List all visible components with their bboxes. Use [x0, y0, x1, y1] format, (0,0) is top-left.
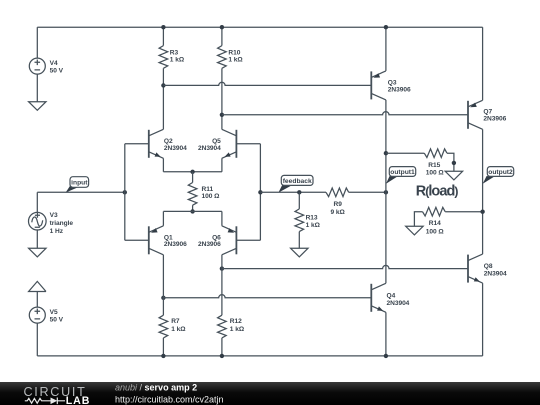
svg-text:2N3904: 2N3904: [484, 271, 507, 278]
resistor R13: [295, 209, 304, 232]
wire R11 bottom lead: [192, 205, 194, 211]
svg-text:2N3904: 2N3904: [164, 145, 187, 152]
wire Q6 collector to R12: [221, 255, 223, 315]
transistor Q7 2N3906: [468, 100, 483, 129]
wire R12 bottom lead: [221, 338, 223, 356]
svg-text:triangle: triangle: [50, 220, 74, 227]
svg-text:feedback: feedback: [283, 178, 312, 185]
transistor Q4 2N3904: [371, 283, 386, 312]
wire R13 bottom lead: [298, 232, 300, 249]
wire R11 top lead: [192, 172, 194, 183]
wire Q1 base lead: [125, 239, 149, 241]
junction R10 top rail: [220, 25, 224, 29]
wire Q8 emitter to bottom rail corner: [482, 283, 484, 356]
resistor R12: [218, 315, 227, 338]
wire top supply rail: [37, 26, 482, 28]
junction R11 top: [190, 170, 194, 174]
resistor R9: [326, 188, 349, 197]
wire Q3 base net with hop over R10: [163, 82, 371, 85]
wire Q3 emitter to top rail: [385, 27, 387, 71]
wire Q6 base lead: [236, 239, 260, 241]
node input flag: [66, 177, 89, 193]
wire R3 top lead: [162, 27, 164, 45]
svg-text:1 kΩ: 1 kΩ: [170, 57, 185, 64]
svg-text:anubi / servo amp 2: anubi / servo amp 2: [115, 382, 197, 392]
svg-text:Q8: Q8: [484, 263, 493, 270]
svg-text:100 Ω: 100 Ω: [426, 170, 445, 177]
wire output2 rail (Q7 collector to Q8 collector): [482, 129, 484, 254]
svg-text:V3: V3: [50, 212, 58, 219]
transistor Q8 2N3904: [468, 254, 483, 283]
transistor Q3 2N3906: [371, 71, 386, 100]
junction input stub: [123, 190, 127, 194]
svg-text:100 Ω: 100 Ω: [426, 228, 445, 235]
wire V4 bottom lead: [36, 74, 38, 102]
transistor Q2 2N3904: [149, 129, 164, 158]
svg-text:R(load): R(load): [416, 183, 459, 199]
svg-text:1 kΩ: 1 kΩ: [306, 222, 321, 229]
svg-text:100 Ω: 100 Ω: [202, 193, 221, 200]
junction R15 tap on output1 rail: [384, 151, 388, 155]
junction Q3 emitter top rail: [384, 25, 388, 29]
transistor Q1 2N3906: [149, 226, 164, 255]
wire Q8 base net with hop over output1 rail: [222, 265, 468, 268]
junction Q4 emitter bottom rail: [384, 354, 388, 358]
svg-text:output2: output2: [488, 169, 513, 176]
svg-text:50 V: 50 V: [50, 317, 64, 324]
ground above V5 (flipped): [29, 281, 46, 291]
wire R13 top lead: [298, 192, 300, 209]
junction R14 output2 rail: [480, 210, 484, 214]
wire Q1 emitter tail: [162, 211, 164, 225]
resistor R15: [424, 149, 447, 158]
ground below V4: [29, 102, 46, 111]
svg-text:1 Hz: 1 Hz: [50, 228, 64, 235]
wire feedback to R9: [260, 191, 326, 193]
wire V3 top lead: [36, 192, 38, 213]
svg-text:R12: R12: [230, 318, 242, 325]
wire output1 rail (Q3 collector to Q4 collector): [385, 100, 387, 283]
junction R11 bottom: [190, 209, 194, 213]
junction R15 ground joint: [452, 161, 456, 165]
ground below R15: [445, 171, 462, 180]
svg-text:R15: R15: [428, 162, 440, 169]
voltage source V4: [29, 58, 45, 74]
svg-text:R13: R13: [306, 214, 318, 221]
svg-text:R3: R3: [170, 49, 179, 56]
svg-text:50 V: 50 V: [50, 68, 64, 75]
wire bottom supply rail: [37, 355, 482, 357]
junction R10 Q7-base tap: [220, 113, 224, 117]
svg-text:R14: R14: [429, 220, 441, 227]
wire R10 bottom to Q5 collector: [221, 68, 223, 129]
wire R10 top lead: [221, 27, 223, 45]
svg-text:R7: R7: [171, 318, 180, 325]
junction Q8 base tap on R12 column: [220, 266, 224, 270]
svg-text:2N3906: 2N3906: [198, 241, 221, 248]
svg-text:input: input: [71, 180, 88, 187]
resistor R3: [159, 46, 168, 69]
junction R7 bottom rail: [161, 354, 165, 358]
svg-text:2N3904: 2N3904: [198, 145, 221, 152]
node output2 flag: [483, 167, 514, 184]
svg-text:V5: V5: [50, 309, 58, 316]
ground below R13: [291, 248, 308, 257]
wire R15 left lead: [386, 152, 424, 154]
node feedback flag: [278, 175, 313, 192]
wire Q2 base lead: [125, 143, 149, 145]
resistor R7: [159, 315, 168, 338]
junction R13 tap: [297, 190, 301, 194]
svg-text:2N3906: 2N3906: [164, 241, 187, 248]
resistor R11: [188, 183, 197, 206]
wire R7 bottom lead: [162, 338, 164, 356]
svg-text:Q4: Q4: [387, 292, 396, 299]
svg-text:http://circuitlab.com/cv2atjn: http://circuitlab.com/cv2atjn: [115, 395, 224, 405]
wire Q5 base lead: [236, 143, 260, 145]
svg-text:2N3904: 2N3904: [387, 300, 410, 307]
ground left of R14: [406, 226, 423, 235]
junction Q4 base tap on R7 column: [161, 296, 165, 300]
transistor Q5 2N3904: [222, 129, 237, 158]
junction R12 bottom rail: [220, 354, 224, 358]
wire feedback vertical: [259, 144, 261, 241]
resistor R10: [218, 46, 227, 69]
wire R3 bottom to Q2 collector: [162, 68, 164, 129]
wire Q5 emitter tail: [221, 158, 223, 172]
wire V3 bottom lead: [36, 229, 38, 248]
svg-text:1 kΩ: 1 kΩ: [230, 326, 245, 333]
wire Q1 collector to R7: [162, 255, 164, 315]
wire R15 right lead to ground: [447, 153, 454, 171]
wire emitter join bottom: [163, 210, 222, 212]
junction feedback: [258, 190, 262, 194]
junction R3 Q3-base tap: [161, 83, 165, 87]
wire V5 bottom lead: [36, 323, 38, 356]
svg-text:9 kΩ: 9 kΩ: [331, 209, 346, 216]
wire Q6 emitter tail: [221, 211, 223, 225]
svg-text:1 kΩ: 1 kΩ: [228, 57, 243, 64]
junction R3 top rail: [161, 25, 165, 29]
wire R9 to output1 rail: [349, 191, 386, 193]
voltage source V3 triangle: [29, 212, 47, 230]
voltage source V5: [29, 307, 45, 323]
svg-text:1 kΩ: 1 kΩ: [171, 326, 186, 333]
node output1 flag: [386, 167, 416, 184]
svg-text:2N3906: 2N3906: [388, 87, 411, 94]
wire V4 top lead: [36, 27, 38, 58]
wire input net from V3 to stub: [37, 191, 125, 193]
junction R9 output1: [384, 190, 388, 194]
svg-text:2N3906: 2N3906: [483, 115, 506, 122]
wire R14 left lead from ground: [414, 212, 422, 227]
wire Q2 emitter tail: [162, 158, 164, 172]
resistor R14: [423, 207, 446, 216]
wire emitter join top: [163, 171, 222, 173]
svg-text:R10: R10: [228, 49, 240, 56]
svg-text:R9: R9: [334, 201, 343, 208]
wire R14 right lead to output2 rail: [445, 211, 482, 213]
wire Q4 base net with hop over R12 column: [163, 295, 371, 298]
transistor Q6 2N3906: [222, 226, 237, 255]
svg-text:R11: R11: [202, 186, 214, 193]
wire Q4 emitter to bottom rail: [385, 312, 387, 356]
svg-text:LAB: LAB: [66, 395, 91, 405]
svg-text:V4: V4: [50, 60, 58, 67]
wire Q7 base net with hop over output1 rail: [222, 112, 468, 115]
ground below V3: [29, 248, 46, 257]
svg-text:Q7: Q7: [483, 108, 492, 115]
wire Q7 emitter to top rail corner: [482, 27, 484, 100]
svg-text:Q3: Q3: [388, 80, 397, 87]
svg-text:output1: output1: [390, 169, 415, 176]
wire V5 top lead: [36, 292, 38, 308]
wire input stub vertical: [124, 144, 126, 241]
